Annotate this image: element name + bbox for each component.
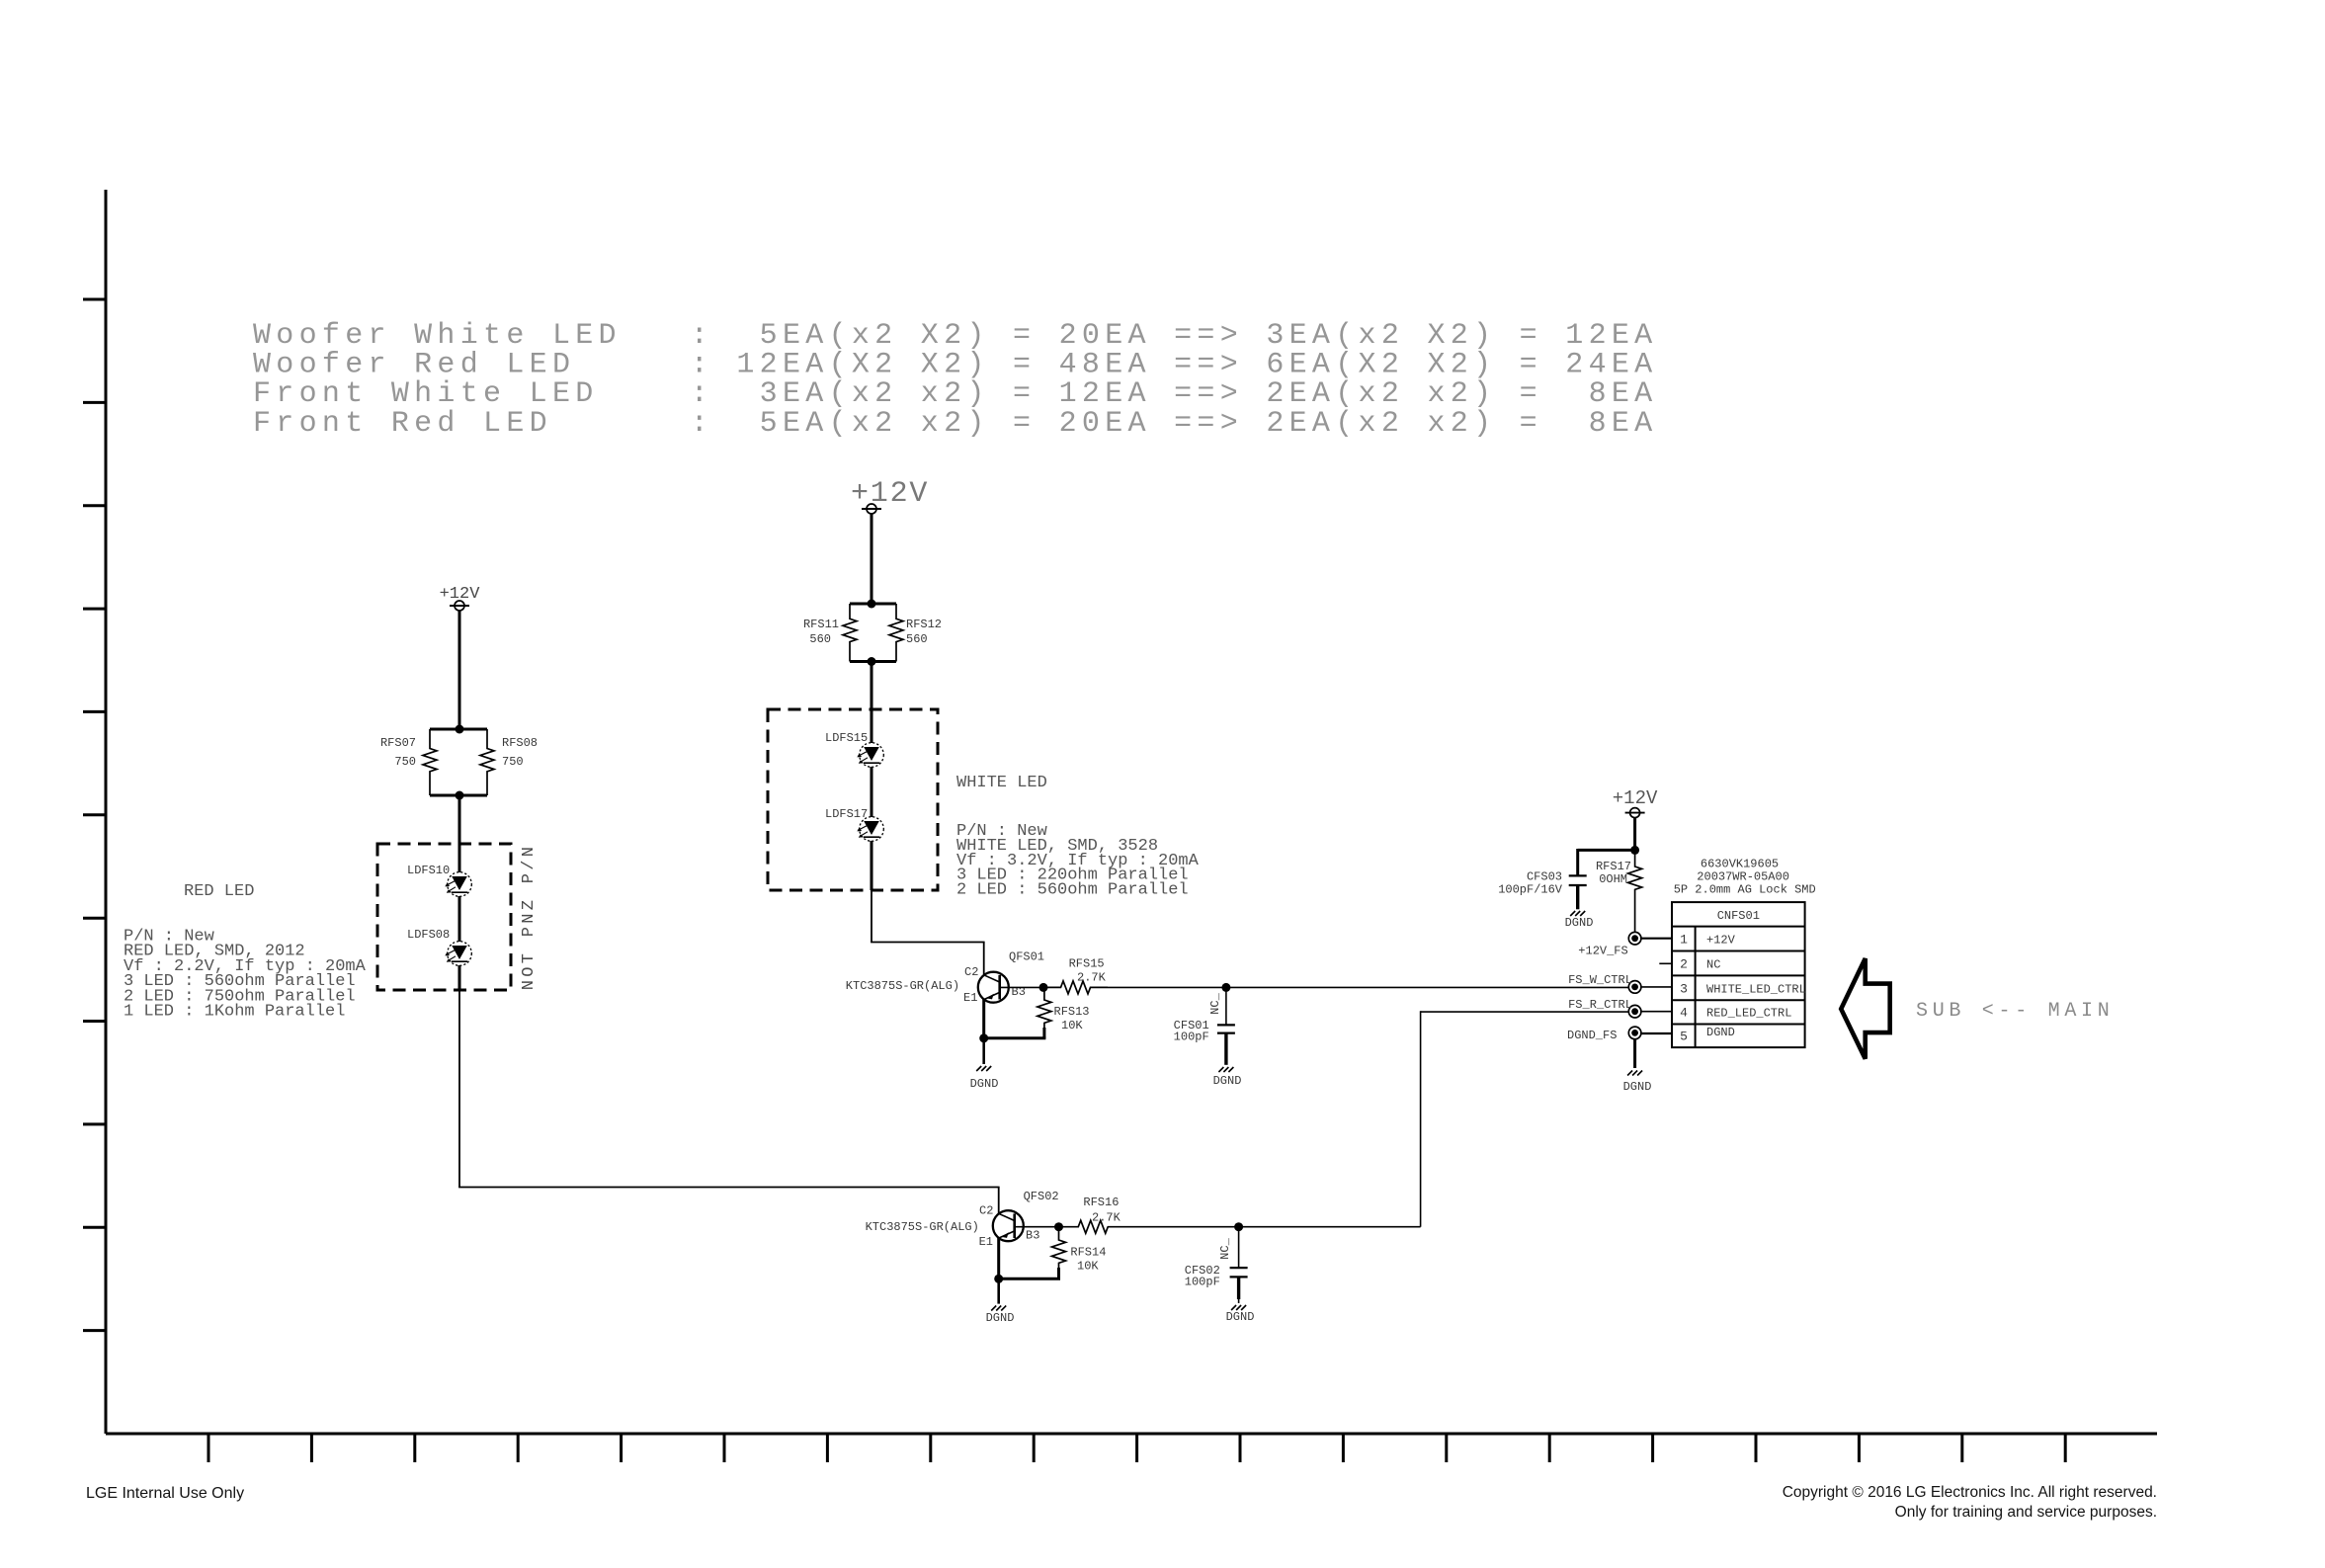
dashed box red LED group xyxy=(377,844,511,990)
wire junction to CFS03 xyxy=(1578,849,1636,875)
svg-text:CNFS01: CNFS01 xyxy=(1717,909,1760,923)
pin B3 QFS02 xyxy=(1026,1228,1039,1242)
annotation WHITE LED xyxy=(956,774,1047,792)
capacitor CFS03 100pF/16V xyxy=(1498,869,1587,896)
svg-text:DGND: DGND xyxy=(1226,1310,1255,1324)
capacitor CFS01 100pF xyxy=(1174,987,1235,1043)
wire RFS16 to riser xyxy=(1127,1226,1421,1228)
svg-text:750: 750 xyxy=(502,755,524,769)
wire parallel bottom bar xyxy=(850,660,896,663)
wire pad5 to connector xyxy=(1641,1032,1672,1034)
svg-text:RFS12: RFS12 xyxy=(906,618,942,631)
wire +12V to junction xyxy=(1633,817,1636,850)
svg-text:RFS15: RFS15 xyxy=(1069,957,1105,971)
junction node +12V / CFS03 / RFS17 xyxy=(1630,846,1639,855)
svg-text:NC_: NC_ xyxy=(1208,992,1222,1014)
junction node bottom of RFS11/RFS12 xyxy=(868,657,876,666)
annotation white LED specs xyxy=(956,822,1200,900)
power +12V (connector feed) xyxy=(1613,787,1658,818)
ground DGND at QFS02 emitter xyxy=(986,1279,1015,1325)
svg-text:CFS03: CFS03 xyxy=(1527,869,1562,883)
resistor RFS07 750 xyxy=(380,729,437,795)
svg-text:DGND: DGND xyxy=(986,1311,1015,1325)
wire resistor pair to LED group xyxy=(458,795,461,872)
wire RFS13 bottom to emitter node xyxy=(982,1028,1045,1038)
svg-text:DGND: DGND xyxy=(1623,1080,1652,1094)
LED LDFS10 xyxy=(407,864,471,896)
svg-text:LDFS10: LDFS10 xyxy=(407,864,450,877)
resistor RFS14 10K xyxy=(1052,1227,1107,1274)
junction node QFS01 emitter xyxy=(979,1033,988,1042)
wire resistor pair to LED group xyxy=(871,662,873,744)
svg-text:DGND: DGND xyxy=(1706,1026,1735,1039)
svg-text:1: 1 xyxy=(1680,933,1688,948)
svg-text:E1: E1 xyxy=(979,1235,993,1249)
pin C2 QFS02 xyxy=(979,1204,993,1218)
resistor RFS16 2.7K xyxy=(1059,1196,1128,1233)
ground DGND below CFS02 xyxy=(1226,1277,1255,1324)
transistor QFS01 KTC3875S-GR(ALG) xyxy=(846,950,1044,1003)
svg-text:5: 5 xyxy=(1680,1030,1688,1044)
svg-text:RFS17: RFS17 xyxy=(1596,860,1631,873)
ground DGND below CFS03 xyxy=(1565,885,1594,930)
svg-text:QFS01: QFS01 xyxy=(1009,950,1044,964)
svg-text:+12V: +12V xyxy=(1706,934,1736,948)
resistor RFS17 0OHM xyxy=(1596,850,1642,932)
pin 3 WHITE_LED_CTRL xyxy=(1680,982,1806,997)
wire +12V to resistor pair xyxy=(871,514,873,604)
label SUB <-- MAIN xyxy=(1916,1000,2114,1023)
svg-text:RFS14: RFS14 xyxy=(1070,1246,1106,1260)
resistor RFS12 560 xyxy=(889,604,942,662)
wire parallel bottom bar xyxy=(430,794,487,797)
power +12V (white LED chain) xyxy=(851,477,929,514)
svg-text:DGND: DGND xyxy=(970,1077,999,1091)
svg-text:LGE Internal Use Only: LGE Internal Use Only xyxy=(86,1485,244,1502)
resistor RFS11 560 xyxy=(803,604,857,662)
svg-text:FS_W_CTRL: FS_W_CTRL xyxy=(1568,973,1632,987)
wire LDFS10 to LDFS08 xyxy=(458,896,461,942)
svg-text:6630VK19605: 6630VK19605 xyxy=(1701,857,1779,870)
svg-text:20037WR-05A00: 20037WR-05A00 xyxy=(1697,870,1789,884)
svg-text:RED_LED_CTRL: RED_LED_CTRL xyxy=(1706,1007,1791,1021)
svg-text:KTC3875S-GR(ALG): KTC3875S-GR(ALG) xyxy=(866,1220,979,1234)
svg-text:LDFS15: LDFS15 xyxy=(825,731,868,745)
ground DGND at QFS01 emitter xyxy=(970,1038,999,1091)
dashed box white LED group xyxy=(768,709,938,890)
power +12V (red LED chain) xyxy=(440,585,481,611)
svg-text:+12V: +12V xyxy=(1613,787,1658,809)
capacitor CFS02 100pF xyxy=(1185,1227,1248,1289)
wire RFS14 bottom to emitter node xyxy=(997,1268,1060,1279)
junction node top of RFS07/RFS08 xyxy=(456,725,464,734)
pad FS_R_CTRL (pin 4) xyxy=(1568,998,1641,1018)
resistor RFS15 2.7K xyxy=(1043,957,1108,994)
svg-text:SUB <-- MAIN: SUB <-- MAIN xyxy=(1916,1000,2114,1023)
wire red LED chain to QFS02 collector xyxy=(458,965,1000,1214)
svg-text:FS_R_CTRL: FS_R_CTRL xyxy=(1568,998,1632,1012)
svg-text:NC_: NC_ xyxy=(1218,1237,1232,1259)
LED LDFS15 xyxy=(825,731,883,767)
svg-text:100pF: 100pF xyxy=(1185,1276,1220,1289)
pin 1 +12V xyxy=(1680,933,1736,948)
svg-text:+12V: +12V xyxy=(440,585,481,604)
annotation: LED quantity summary xyxy=(253,319,1657,441)
resistor RFS13 10K xyxy=(1038,987,1090,1032)
svg-text:KTC3875S-GR(ALG): KTC3875S-GR(ALG) xyxy=(846,979,959,993)
wire white LED chain to QFS01 collector xyxy=(871,841,985,975)
pin 2 NC xyxy=(1680,957,1720,972)
wire LDFS15 to LDFS17 xyxy=(871,767,873,817)
svg-text:5P 2.0mm AG Lock SMD: 5P 2.0mm AG Lock SMD xyxy=(1674,883,1816,897)
pin C2 QFS01 xyxy=(964,965,978,979)
wire QFS01 emitter down xyxy=(982,1000,985,1038)
LED LDFS08 xyxy=(407,928,471,965)
svg-text:RED LED: RED LED xyxy=(184,882,254,901)
svg-text:3: 3 xyxy=(1680,982,1688,997)
svg-text:Copyright © 2016 LG Electronic: Copyright © 2016 LG Electronics Inc. All… xyxy=(1783,1484,2157,1501)
label NC_ (CFS01 net) xyxy=(1208,992,1222,1014)
LED LDFS17 xyxy=(825,807,883,841)
svg-text:100pF/16V: 100pF/16V xyxy=(1498,882,1563,896)
svg-text:RFS07: RFS07 xyxy=(380,736,416,750)
junction node QFS02 emitter xyxy=(994,1275,1003,1283)
svg-text:NOT PNZ P/N: NOT PNZ P/N xyxy=(520,844,539,991)
wire parallel top bar xyxy=(430,728,487,731)
ground DGND below pad5 xyxy=(1623,1039,1652,1094)
junction node QFS01 base / RFS13 / RFS15 xyxy=(1039,983,1048,992)
svg-text:WHITE LED: WHITE LED xyxy=(956,774,1047,792)
svg-text:NC: NC xyxy=(1706,958,1720,972)
svg-text:RFS16: RFS16 xyxy=(1083,1196,1119,1209)
svg-text:+12V: +12V xyxy=(851,477,929,511)
junction node QFS02 base / RFS14 / RFS16 xyxy=(1054,1222,1063,1231)
resistor RFS08 750 xyxy=(480,729,538,795)
svg-text:QFS02: QFS02 xyxy=(1024,1190,1059,1203)
svg-text:LDFS17: LDFS17 xyxy=(825,807,868,821)
svg-text:RFS11: RFS11 xyxy=(803,618,839,631)
wire QFS02 emitter down xyxy=(997,1238,1000,1279)
svg-text:560: 560 xyxy=(906,632,928,646)
arrow SUB <-- MAIN xyxy=(1841,958,1890,1059)
connector CNFS01 xyxy=(1672,902,1805,1047)
svg-text:2.7K: 2.7K xyxy=(1077,971,1107,985)
svg-text:C2: C2 xyxy=(964,965,978,979)
wire NC stub (pin 2) xyxy=(1659,962,1672,964)
label NC_ (CFS02 net) xyxy=(1218,1237,1232,1259)
svg-text:4: 4 xyxy=(1680,1006,1688,1021)
svg-text:Only for training and service: Only for training and service purposes. xyxy=(1895,1504,2157,1521)
annotation RED LED xyxy=(184,882,254,901)
svg-text:+12V_FS: +12V_FS xyxy=(1578,945,1627,958)
svg-text:0OHM: 0OHM xyxy=(1599,872,1627,886)
junction node CFS01 tap xyxy=(1221,983,1230,992)
svg-text:1 LED : 1Kohm Parallel: 1 LED : 1Kohm Parallel xyxy=(124,1003,345,1022)
annotation red LED specs xyxy=(124,928,367,1022)
svg-text:LDFS08: LDFS08 xyxy=(407,928,450,942)
transistor QFS02 KTC3875S-GR(ALG) xyxy=(866,1190,1059,1241)
wire QFS02 base to node xyxy=(1015,1226,1059,1228)
svg-text:10K: 10K xyxy=(1061,1019,1083,1032)
svg-text:RFS13: RFS13 xyxy=(1054,1005,1090,1019)
pin E1 QFS01 xyxy=(963,991,977,1005)
svg-text:B3: B3 xyxy=(1026,1228,1039,1242)
footer copyright xyxy=(1783,1484,2157,1521)
pad FS_W_CTRL (pin 3) xyxy=(1568,973,1641,993)
svg-text:DGND: DGND xyxy=(1213,1074,1242,1088)
svg-text:750: 750 xyxy=(394,755,416,769)
svg-text:2: 2 xyxy=(1680,957,1688,972)
svg-text:10K: 10K xyxy=(1077,1260,1099,1274)
annotation connector part numbers xyxy=(1674,857,1816,896)
svg-text:E1: E1 xyxy=(963,991,977,1005)
svg-text:WHITE_LED_CTRL: WHITE_LED_CTRL xyxy=(1706,983,1806,997)
svg-text:DGND_FS: DGND_FS xyxy=(1567,1029,1617,1042)
junction node top of RFS11/RFS12 xyxy=(868,600,876,609)
svg-text:C2: C2 xyxy=(979,1204,993,1218)
wire pad1 to connector xyxy=(1641,938,1672,940)
pin 4 RED_LED_CTRL xyxy=(1680,1006,1791,1021)
pin 5 DGND xyxy=(1680,1026,1735,1044)
svg-text:560: 560 xyxy=(809,632,831,646)
svg-text:2 LED : 560ohm Parallel: 2 LED : 560ohm Parallel xyxy=(956,881,1189,900)
svg-text:DGND: DGND xyxy=(1565,916,1594,930)
footer LGE Internal Use Only xyxy=(86,1485,244,1502)
label NOT PNZ P/N xyxy=(520,844,539,991)
wire parallel top bar xyxy=(850,603,896,606)
pin B3 QFS01 xyxy=(1012,985,1026,999)
svg-text:Front Red LED : 5EA(x2 x: Front Red LED : 5EA(x2 x2) = 20EA ==> 2E… xyxy=(253,407,1657,441)
pin E1 QFS02 xyxy=(979,1235,993,1249)
wire RFS15 to FS_W_CTRL pad xyxy=(1108,986,1628,988)
wire QFS01 base to node xyxy=(1000,986,1043,988)
pad DGND_FS (pin 5) xyxy=(1567,1027,1641,1042)
ground DGND below CFS01 xyxy=(1213,1033,1242,1088)
svg-text:2.7K: 2.7K xyxy=(1092,1210,1121,1224)
wire riser FS_R_CTRL xyxy=(1421,1011,1628,1226)
svg-text:RFS08: RFS08 xyxy=(502,736,538,750)
wire pad4 to connector xyxy=(1641,1011,1672,1013)
pad +12V_FS (pin 1) xyxy=(1578,932,1641,957)
junction node bottom of RFS07/RFS08 xyxy=(456,791,464,800)
svg-text:100pF: 100pF xyxy=(1174,1031,1209,1044)
wire +12V to resistor pair xyxy=(458,611,461,729)
wire pad3 to connector xyxy=(1641,986,1672,988)
junction node CFS02 tap xyxy=(1234,1222,1243,1231)
